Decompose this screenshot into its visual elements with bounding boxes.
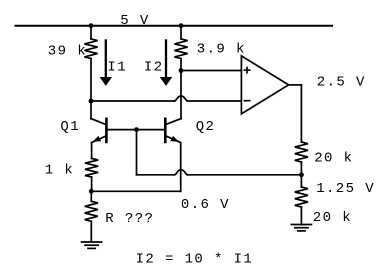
junction node: rail / R1 39k bbox=[89, 23, 94, 28]
svg-text:I2: I2 bbox=[144, 60, 164, 76]
resistor R5 20 k upper (zigzag + lead) bbox=[295, 142, 308, 175]
svg-text:3.9 k: 3.9 k bbox=[197, 42, 246, 58]
svg-text:20 k: 20 k bbox=[314, 151, 353, 167]
svg-text:R ???: R ??? bbox=[105, 211, 154, 227]
ground symbol right bbox=[291, 225, 311, 231]
transistor Q1 emitter lead bbox=[92, 136, 107, 159]
svg-text:0.6 V: 0.6 V bbox=[181, 197, 230, 213]
junction node: 1k / R??? / 0.6V wire bbox=[89, 189, 94, 194]
wire: op-amp output bbox=[289, 85, 302, 142]
power rail 5V wire bbox=[16, 25, 333, 27]
wire: 0.6 V node horizontal bbox=[91, 190, 180, 192]
op-amp plus mark bbox=[244, 68, 249, 73]
transistor Q2 base lead bbox=[137, 129, 166, 131]
resistor R2 3.9 k (leads + zigzag) bbox=[174, 26, 187, 71]
svg-text:20 k: 20 k bbox=[313, 210, 352, 226]
wire: Q1 collector node to op-amp inverting input (with hop over Q2 collector) bbox=[91, 96, 241, 101]
resistor R1 39 k (leads + zigzag) bbox=[84, 26, 97, 101]
op-amp U1 triangle bbox=[241, 56, 288, 114]
transistor Q1 base lead bbox=[106, 129, 136, 131]
svg-text:2.5 V: 2.5 V bbox=[317, 75, 366, 91]
junction node: rail / R2 3.9k bbox=[179, 23, 184, 28]
transistor Q2 emitter arrowhead bbox=[170, 136, 179, 142]
svg-text:5 V: 5 V bbox=[120, 13, 149, 29]
svg-text:Q2: Q2 bbox=[196, 119, 216, 135]
junction node: shared base bbox=[134, 127, 139, 132]
junction node: 1.25 V bbox=[299, 172, 304, 177]
transistor Q2 emitter lead bbox=[165, 136, 180, 192]
wire: Q2 collector vertical bbox=[180, 71, 182, 119]
transistor Q1 collector lead bbox=[91, 101, 106, 125]
svg-text:I1: I1 bbox=[107, 60, 127, 76]
op-amp minus mark bbox=[244, 100, 249, 102]
wire: feedback from base node down and right to 1.25V node (with hop over Q2 emitter) bbox=[137, 130, 302, 175]
svg-text:Q1: Q1 bbox=[60, 119, 80, 135]
transistor Q2 collector lead bbox=[166, 119, 182, 125]
resistor R4 R??? (leads + zigzag) bbox=[85, 191, 98, 242]
resistor R3 1 k (leads + zigzag) bbox=[85, 159, 98, 192]
svg-text:1.25 V: 1.25 V bbox=[316, 181, 375, 197]
ground symbol left bbox=[82, 242, 102, 248]
svg-text:I2 = 10 * I1: I2 = 10 * I1 bbox=[136, 252, 254, 268]
resistor R6 20 k lower (leads + zigzag) bbox=[295, 175, 308, 225]
current arrow I1 bbox=[100, 39, 112, 86]
current arrow I2 bbox=[160, 39, 172, 86]
wire: node to op-amp noninverting input bbox=[181, 70, 241, 72]
svg-text:39 k: 39 k bbox=[48, 43, 87, 59]
junction node: R1 / Q1 collector / inverting wire bbox=[89, 99, 94, 104]
junction node: R2 / opamp + / Q2 collector bbox=[179, 68, 184, 73]
transistor Q1 base bar bbox=[105, 118, 108, 144]
svg-text:1 k: 1 k bbox=[45, 163, 74, 179]
transistor Q1 emitter arrowhead bbox=[93, 136, 102, 142]
transistor Q2 base bar bbox=[164, 118, 167, 144]
